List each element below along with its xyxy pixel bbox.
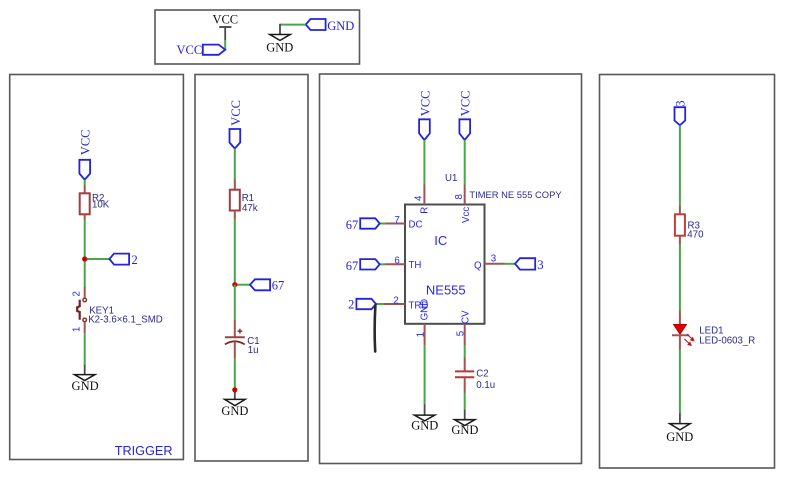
svg-text:GND: GND	[451, 423, 478, 437]
svg-text:5: 5	[456, 331, 467, 336]
svg-text:GND: GND	[411, 419, 438, 433]
ground	[266, 24, 293, 55]
svg-text:GND: GND	[666, 430, 693, 444]
wire	[424, 345, 426, 405]
svg-text:R: R	[420, 207, 431, 214]
svg-text:7: 7	[394, 215, 399, 226]
svg-text:C2: C2	[476, 368, 488, 379]
svg-text:1: 1	[72, 327, 83, 332]
netflag 67	[346, 259, 380, 273]
netflag 3	[515, 258, 544, 272]
pin 7 DC	[385, 215, 422, 231]
junction	[232, 387, 237, 392]
svg-text:TH: TH	[409, 260, 422, 271]
svg-text:GND: GND	[420, 299, 431, 321]
svg-text:VCC: VCC	[176, 43, 202, 57]
netflag 2	[109, 253, 137, 267]
LED LED1	[672, 311, 755, 350]
svg-text:1: 1	[415, 332, 426, 337]
wire	[679, 244, 681, 311]
wire	[505, 263, 515, 265]
wire	[380, 223, 386, 225]
wire	[280, 24, 306, 26]
wire	[224, 40, 226, 50]
wire	[380, 263, 386, 265]
svg-text:GND: GND	[266, 40, 293, 54]
op-amp U1 : NE555 body	[405, 205, 485, 324]
frame timer box	[320, 74, 582, 464]
resistor R3	[675, 206, 704, 245]
netflag 2	[348, 298, 376, 312]
resistor R2	[80, 185, 110, 219]
wire	[84, 180, 86, 186]
wire	[679, 125, 681, 206]
netflag VCC	[229, 100, 243, 149]
svg-text:10K: 10K	[92, 200, 110, 211]
wire	[234, 219, 236, 285]
svg-text:U1: U1	[445, 173, 457, 184]
junction	[82, 256, 87, 261]
svg-text:DC: DC	[409, 219, 423, 230]
svg-text:IC: IC	[434, 233, 447, 248]
capacitor C2	[455, 358, 495, 393]
junction	[232, 282, 237, 287]
netflag 3	[673, 100, 687, 125]
svg-text:1u: 1u	[248, 345, 259, 356]
netflag VCC	[79, 129, 93, 179]
netflag VCC	[176, 43, 225, 57]
frame trigger box	[10, 75, 184, 460]
svg-text:Q: Q	[474, 260, 482, 271]
svg-text:3: 3	[491, 254, 496, 265]
svg-text:GND: GND	[72, 379, 99, 393]
wire	[679, 350, 681, 414]
netflag VCC	[459, 90, 473, 140]
netflag GND	[306, 19, 355, 33]
pin 5 CV	[456, 310, 472, 345]
frame rc box	[195, 75, 308, 462]
wire	[84, 259, 86, 287]
wire	[84, 220, 86, 260]
netflag VCC	[418, 90, 432, 140]
pin 2 TRD	[384, 295, 428, 311]
wire	[464, 345, 466, 358]
svg-text:0.1u: 0.1u	[476, 380, 495, 391]
svg-text:NE555: NE555	[426, 283, 466, 298]
svg-text:VCC: VCC	[418, 90, 432, 116]
svg-text:47k: 47k	[242, 203, 258, 214]
pin 8 Vcc	[454, 185, 472, 223]
svg-text:67: 67	[272, 279, 285, 293]
capacitor C1	[225, 320, 260, 359]
svg-text:2: 2	[393, 295, 398, 306]
svg-text:3: 3	[673, 100, 687, 106]
netflag 67	[346, 218, 380, 232]
pin 1 GND	[415, 299, 430, 345]
svg-text:VCC: VCC	[229, 100, 243, 126]
frame led box	[600, 75, 775, 469]
ground	[72, 365, 99, 393]
switch KEY1	[72, 287, 163, 333]
svg-text:TRIGGER: TRIGGER	[115, 444, 173, 458]
svg-text:K2-3.6×6.1_SMD: K2-3.6×6.1_SMD	[88, 315, 163, 326]
svg-text:VCC: VCC	[212, 13, 238, 27]
wire	[234, 359, 236, 393]
svg-text:Vcc: Vcc	[461, 207, 472, 223]
wire	[234, 149, 236, 180]
resistor R1	[230, 179, 258, 219]
ground	[411, 404, 438, 432]
svg-text:6: 6	[394, 256, 399, 267]
pin 4 R	[413, 185, 430, 214]
svg-text:GND: GND	[327, 19, 354, 33]
svg-text:2: 2	[348, 298, 354, 312]
svg-text:470: 470	[687, 230, 704, 241]
svg-text:GND: GND	[221, 404, 248, 418]
wire sliver artifact	[373, 305, 376, 352]
svg-text:2: 2	[72, 291, 83, 296]
ground	[451, 410, 478, 437]
svg-text:CV: CV	[460, 310, 471, 324]
wire	[376, 303, 384, 305]
netflag 67	[250, 279, 284, 293]
power symbol VCC	[212, 13, 238, 40]
wire	[464, 393, 466, 411]
wire	[85, 258, 110, 260]
svg-text:VCC: VCC	[79, 129, 93, 155]
svg-text:TIMER NE 555 COPY: TIMER NE 555 COPY	[469, 189, 562, 200]
ground	[666, 413, 693, 444]
svg-text:4: 4	[413, 195, 424, 201]
wire	[464, 140, 466, 185]
svg-text:VCC: VCC	[459, 90, 473, 116]
wire	[235, 284, 250, 286]
svg-text:67: 67	[346, 218, 359, 232]
wire	[423, 140, 425, 185]
svg-text:2: 2	[132, 253, 138, 267]
wire	[234, 285, 236, 321]
svg-text:8: 8	[454, 194, 465, 199]
svg-text:67: 67	[346, 259, 359, 273]
pin 3 Q	[474, 254, 505, 272]
ground	[221, 392, 248, 418]
svg-text:3: 3	[537, 258, 543, 272]
svg-text:LED-0603_R: LED-0603_R	[699, 336, 755, 347]
frame top box	[155, 10, 360, 64]
wire	[84, 333, 86, 366]
pin 6 TH	[385, 256, 421, 272]
